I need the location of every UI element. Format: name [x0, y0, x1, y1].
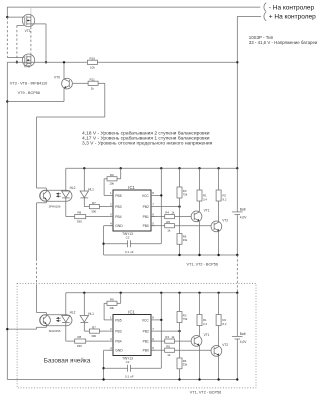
node junction on top rail cell1 x=218.6 [217, 167, 219, 169]
resistor R4 1k cell1 [151, 216, 165, 218]
wire pin 4 GND down cell1 [104, 225, 113, 227]
wire bottom GND rail cell2 [7, 379, 237, 381]
pin 8 VCC cell1 [151, 194, 155, 196]
pin 4 GND cell2 [109, 349, 113, 351]
node junction on top rail cell2 x=199.5 [198, 292, 200, 294]
svg-text:C2: C2 [126, 360, 130, 364]
node junction on top rail cell1 x=237.3 [236, 167, 238, 169]
svg-text:HL1: HL1 [88, 187, 94, 191]
svg-text:VT1: VT1 [204, 208, 210, 212]
svg-text:33 - 41,6 V - Напряжение батар: 33 - 41,6 V - Напряжение батареи [249, 40, 318, 45]
node gnd col on rail cell2 [102, 378, 104, 380]
node junction on top rail cell2 x=237.3 [236, 292, 238, 294]
wire: left rail top segment [6, 7, 8, 17]
node junction on top rail cell1 x=84.3 [83, 167, 85, 169]
node VT9 collector [63, 61, 65, 63]
svg-text:390: 390 [77, 344, 82, 348]
node junction on top rail cell1 x=199.5 [198, 167, 200, 169]
pin 6 PB1 cell1 [151, 216, 155, 218]
transistor VT3 IRFB4110 [22, 14, 34, 26]
svg-text:8,2: 8,2 [223, 197, 227, 201]
wire HL1 cathode to R7 cell2 [83, 322, 85, 331]
wire pin 4 GND down cell2 [104, 349, 113, 351]
resistor R2 8,2 cell1 [218, 168, 220, 190]
svg-text:VT8: VT8 [24, 64, 30, 68]
svg-text:3,4: 3,4 [203, 197, 207, 201]
svg-text:4,0V: 4,0V [240, 216, 247, 220]
pin 2 PB3 cell2 [109, 330, 113, 332]
wire dashed battery chain link [236, 255, 238, 293]
pin 5 PB0 cell1 [151, 225, 155, 227]
wire: top VCC rail of cell1 [66, 167, 238, 169]
svg-text:+ На контролер: + На контролер [269, 14, 316, 21]
svg-text:Batt: Batt [240, 332, 246, 336]
svg-text:SFH6156: SFH6156 [49, 329, 61, 333]
svg-text:VT1, VT2 - BCP56: VT1, VT2 - BCP56 [187, 262, 218, 266]
wire VT9 collector to bus [63, 62, 65, 79]
svg-text:1k: 1k [91, 86, 95, 90]
LED HL1 cell2 [80, 316, 88, 323]
capacitor C2 0,1uF cell2 [104, 367, 128, 369]
LED HL2 cell2 [62, 316, 70, 323]
svg-text:R5: R5 [166, 220, 170, 224]
pin 3 PB4 cell2 [109, 340, 113, 342]
node junction bottom rail cell2 x=199.5 [198, 378, 200, 380]
svg-text:390: 390 [91, 334, 96, 338]
svg-text:Batt: Batt [240, 208, 246, 212]
resistor R4 1k cell2 [151, 340, 165, 342]
pin 7 PB2 cell2 [151, 330, 155, 332]
svg-text:3,4: 3,4 [203, 322, 207, 326]
wire VT1 emitter to gnd rail cell1 [199, 221, 201, 255]
transistor VT1 cell2 [191, 336, 202, 347]
svg-text:PB0: PB0 [143, 349, 149, 353]
resistor R1 3,4 cell1 [199, 168, 201, 190]
svg-text:IC1: IC1 [128, 309, 135, 314]
svg-text:10k: 10k [109, 182, 114, 186]
wire HL1 cathode to R7 cell1 [83, 198, 85, 207]
svg-text:390: 390 [91, 209, 96, 213]
pin 5 PB0 cell2 [151, 349, 155, 351]
node junction bottom rail cell1 x=237.3 [236, 254, 238, 256]
svg-text:PB2: PB2 [143, 205, 149, 209]
wire opto collector in cell2 [37, 312, 47, 314]
wire: left rail dashed segment [6, 17, 8, 57]
node VT3 source on bus [45, 61, 47, 63]
wire VT9 base to R11 [73, 82, 88, 84]
node junction on top rail cell1 x=120.7 [120, 167, 122, 169]
resistor R5 1k cell2 [151, 349, 165, 351]
op IC1 TINY13 cell2 [113, 315, 151, 356]
node pin7 divider cell2 [178, 330, 180, 332]
boundary: base cell dashed box [17, 284, 256, 388]
node junction bottom rail cell2 x=237.3 [236, 378, 238, 380]
wire: source bus with R16 [7, 61, 87, 63]
wire dashed parallel mosfet link [30, 27, 32, 54]
pin 1 PB5 cell2 [109, 319, 113, 321]
svg-text:1k: 1k [171, 211, 175, 215]
svg-text:R7: R7 [92, 325, 96, 329]
wire VT3 source jog [31, 23, 46, 25]
node junction on top rail cell2 x=179.5 [178, 292, 180, 294]
svg-text:VT9 - BCP56: VT9 - BCP56 [18, 91, 40, 95]
svg-text:VT1: VT1 [204, 333, 210, 337]
svg-text:VCC: VCC [142, 318, 150, 322]
node VT9 emitter to rail [6, 100, 8, 102]
svg-text:VT9: VT9 [54, 75, 60, 79]
node pin8/vcc cell2 [160, 319, 162, 321]
svg-text:SFH6156: SFH6156 [49, 204, 61, 208]
wire opto emitter out cell1 [45, 200, 47, 203]
resistor R6 33k cell2 [177, 358, 182, 369]
wire: battery plus rail vertical [236, 16, 238, 168]
transistor VT2 cell1 [211, 221, 222, 232]
connector arc plus [264, 12, 266, 21]
wire VT3 drain to minus line [30, 7, 32, 14]
node junction on top rail cell2 x=161.3 [160, 292, 162, 294]
svg-text:PB1: PB1 [143, 215, 149, 219]
svg-text:PB0: PB0 [143, 224, 149, 228]
transistor VT2 cell2 [211, 346, 222, 357]
resistor R1 3,4 cell2 [199, 293, 201, 315]
node gnd/cap cell2 [102, 367, 104, 369]
pin 7 PB2 cell1 [151, 206, 155, 208]
svg-text:10k: 10k [109, 306, 114, 310]
node junction on top rail cell2 x=218.6 [217, 292, 219, 294]
wire VCC column to pin 8 cell2 [160, 293, 162, 368]
wire VT1 emitter to gnd rail cell2 [199, 346, 201, 380]
wire bottom GND rail cell1 [104, 254, 238, 256]
pin 2 PB3 cell1 [109, 206, 113, 208]
svg-text:R9: R9 [110, 173, 114, 177]
resistor R9 10k cell2 [120, 293, 122, 304]
svg-text:3,3 V - Уровень отсечки пред: 3,3 V - Уровень отсечки предельного низк… [82, 140, 213, 146]
svg-text:R7: R7 [92, 201, 96, 205]
svg-text:IC1: IC1 [128, 185, 135, 190]
svg-text:33k: 33k [183, 363, 188, 367]
svg-text:R8: R8 [77, 335, 81, 339]
resistor R7 390 cell2 [89, 329, 99, 333]
svg-text:1k: 1k [171, 335, 175, 339]
svg-text:0,1 uF: 0,1 uF [125, 250, 134, 254]
light coupling arrows cell2 [56, 317, 59, 319]
pin 8 VCC cell2 [151, 319, 155, 321]
svg-text:1k: 1k [167, 353, 171, 357]
wire pin 7 to divider cell2 [155, 330, 180, 332]
light coupling arrows cell1 [56, 193, 59, 195]
optocoupler phototransistor cell1 [40, 190, 51, 201]
svg-text:4,0V: 4,0V [240, 340, 247, 344]
resistor R16 10k [87, 60, 97, 64]
svg-text:R11: R11 [90, 77, 96, 81]
svg-text:1k: 1k [167, 228, 171, 232]
node junction on top rail cell2 x=120.7 [120, 292, 122, 294]
wire pin 7 to divider cell1 [155, 206, 180, 208]
resistor R5 1k cell1 [151, 225, 165, 227]
pin 6 PB1 cell2 [151, 340, 155, 342]
svg-text:HL2: HL2 [70, 311, 76, 315]
svg-text:- На контролер: - На контролер [269, 4, 315, 11]
node left rail VT3 tap [6, 16, 8, 18]
transistor VT8 IRFB4110 [22, 54, 34, 66]
optocoupler U-cell2 SFH6156 body [40, 315, 72, 326]
resistor R3 75k cell1 [179, 168, 181, 187]
resistor R3 75k cell2 [179, 293, 181, 312]
capacitor C2 0,1uF cell1 [104, 243, 128, 245]
svg-text:0,1 uF: 0,1 uF [125, 375, 134, 379]
svg-text:75k: 75k [183, 193, 188, 197]
pin 1 PB5 cell1 [109, 194, 113, 196]
resistor R6 33k cell1 [177, 234, 182, 245]
node junction bottom rail cell2 x=179.5 [178, 378, 180, 380]
pin 4 GND cell1 [109, 225, 113, 227]
svg-text:R4: R4 [165, 335, 169, 339]
LED HL2 cell1 [62, 191, 70, 198]
svg-text:GND: GND [115, 349, 123, 353]
node pin7 divider cell1 [178, 205, 180, 207]
svg-text:33k: 33k [183, 238, 188, 242]
wire VT2 emitter to gnd rail cell2 [218, 356, 220, 380]
svg-text:75k: 75k [183, 317, 188, 321]
svg-text:PB5: PB5 [115, 318, 121, 322]
optocoupler phototransistor cell2 [40, 315, 51, 326]
svg-text:PB4: PB4 [115, 340, 121, 344]
resistor R7 390 cell1 [89, 205, 99, 209]
svg-text:VT2: VT2 [222, 218, 228, 222]
node emitter to left rail [6, 328, 8, 330]
wire HL1 anode column cell1 [83, 168, 85, 191]
svg-text:R4: R4 [165, 211, 169, 215]
svg-text:VT2: VT2 [222, 343, 228, 347]
connector arc minus [264, 3, 266, 12]
wire HL2 anode column cell2 [65, 293, 67, 316]
svg-text:VT1, VT2 - BCP56: VT1, VT2 - BCP56 [190, 390, 221, 394]
LED HL1 cell1 [80, 191, 88, 198]
resistor R2 8,2 cell2 [218, 293, 220, 315]
wire: VT3 source tap [7, 16, 24, 18]
resistor R9 10k cell1 [120, 168, 122, 179]
node junction on top rail cell1 x=161.3 [160, 167, 162, 169]
svg-text:HL2: HL2 [70, 186, 76, 190]
node junction on top rail cell1 x=179.5 [178, 167, 180, 169]
node junction on top rail cell2 x=84.3 [83, 292, 85, 294]
svg-text:C2: C2 [126, 236, 130, 240]
svg-text:10k: 10k [90, 66, 95, 70]
svg-text:Базовая ячейка: Базовая ячейка [44, 356, 91, 364]
wire HL2 cathode to R8 cell2 [65, 322, 67, 341]
svg-text:R16: R16 [90, 57, 96, 61]
resistor R8 390 cell1 [75, 215, 86, 219]
svg-text:R5: R5 [166, 344, 170, 348]
svg-text:PB2: PB2 [143, 330, 149, 334]
svg-text:PB1: PB1 [143, 340, 149, 344]
svg-text:VCC: VCC [142, 194, 150, 198]
wire: left rail main vertical [6, 62, 8, 379]
node junction bottom rail cell1 x=179.5 [178, 254, 180, 256]
svg-text:PB4: PB4 [115, 215, 121, 219]
svg-text:R9: R9 [110, 297, 114, 301]
wire VT2 emitter to gnd rail cell1 [218, 231, 220, 255]
wire: minus output line to controller [7, 6, 260, 8]
wire HL2 cathode to R8 cell1 [65, 198, 67, 217]
wire VCC column to pin 8 cell1 [160, 168, 162, 243]
svg-text:VT3 - VT8 - IRFB4110: VT3 - VT8 - IRFB4110 [10, 81, 48, 85]
wire opto collector in cell1 [37, 187, 47, 189]
wire opto emitter out cell2 [45, 324, 47, 327]
node plus rail / R16 [236, 61, 238, 63]
wire R11 to opto chain [98, 82, 105, 84]
node gnd/cap cell1 [102, 243, 104, 245]
battery Batt 4,0V cell2 [236, 293, 238, 337]
transistor VT9 BCP56 [62, 78, 73, 89]
wire HL1 anode column cell2 [83, 293, 85, 316]
svg-text:HL1: HL1 [88, 312, 94, 316]
svg-text:390: 390 [77, 219, 82, 223]
battery Batt 4,0V cell1 [236, 168, 238, 212]
op IC1 TINY13 cell1 [113, 190, 151, 231]
node junction bottom rail cell1 x=218.6 [217, 254, 219, 256]
wire dashed opto chain link down [36, 259, 38, 287]
wire: to VT8 gate [7, 57, 24, 59]
svg-text:PB3: PB3 [115, 205, 121, 209]
wire: VT3 gate lead [17, 25, 24, 27]
transistor VT1 cell1 [191, 211, 202, 222]
resistor R11 1k [88, 81, 98, 85]
svg-text:PB3: PB3 [115, 330, 121, 334]
svg-text:R8: R8 [77, 211, 81, 215]
wire: plus output line to controller [237, 15, 261, 17]
node pin8/vcc cell1 [160, 194, 162, 196]
wire VT9 emitter to rail [63, 89, 65, 102]
node junction bottom rail cell2 x=218.6 [217, 378, 219, 380]
svg-text:GND: GND [115, 224, 123, 228]
wire: dashed gate bus [16, 26, 18, 63]
resistor R8 390 cell2 [75, 339, 86, 343]
svg-text:PB5: PB5 [115, 194, 121, 198]
pin 3 PB4 cell1 [109, 216, 113, 218]
wire: top VCC rail of cell2 [66, 292, 238, 294]
node gate bus to source bus [16, 61, 18, 63]
optocoupler U-cell1 SFH6156 body [40, 190, 72, 201]
svg-text:VT3: VT3 [25, 29, 31, 33]
svg-text:8,2: 8,2 [223, 322, 227, 326]
node junction bottom rail cell1 x=199.5 [198, 254, 200, 256]
wire HL2 anode column cell1 [65, 168, 67, 191]
